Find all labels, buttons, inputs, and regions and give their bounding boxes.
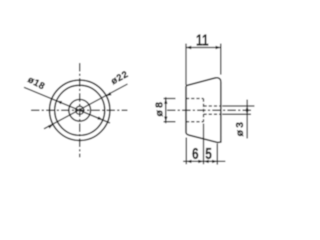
- dimension line D18: [24, 87, 110, 123]
- svg-text:5: 5: [205, 144, 212, 162]
- arrowhead dim D3 top: [246, 106, 249, 110]
- dim 6/5: right extension line: [216, 144, 218, 165]
- label D8: [154, 100, 166, 117]
- arrowhead dim D8 top: [164, 99, 167, 104]
- horizontal centerline side view: [167, 109, 252, 111]
- arrowhead dim D3 bottom: [246, 110, 249, 114]
- dim 6/5: left extension line: [185, 138, 187, 165]
- vertical centerline front view: [79, 63, 81, 157]
- dim 11: dimension line: [186, 47, 221, 49]
- dim 6/5: dimension line: [183, 160, 225, 162]
- dim D3: bottom extension line: [222, 113, 251, 115]
- arrowhead dim 11 left: [186, 46, 191, 49]
- svg-text:11: 11: [196, 31, 209, 49]
- dim 11: left extension line: [185, 44, 187, 85]
- svg-text:ø3: ø3: [234, 120, 246, 137]
- label D22: [109, 69, 130, 87]
- dimension line D22: [44, 84, 128, 129]
- horizontal centerline front view: [31, 109, 128, 111]
- dim 6/5: middle extension line: [203, 124, 205, 165]
- hidden line D8 hole end face: [203, 99, 205, 122]
- hidden line D3 hole top: [204, 105, 221, 107]
- dim D8: dimension line: [165, 97, 167, 123]
- arrowhead D22 lower-left: [48, 123, 54, 128]
- dim D3: dimension line: [246, 100, 248, 139]
- hidden line D3 hole bottom: [204, 113, 221, 115]
- label 11: [196, 31, 209, 49]
- arrowhead D22 upper-right: [105, 92, 111, 97]
- arrowhead dim D8 bottom: [164, 117, 167, 122]
- circle D18: [55, 85, 105, 135]
- part outline side view: [186, 78, 221, 143]
- dim D3: top extension line: [222, 105, 254, 107]
- dim D8: top extension line: [164, 98, 176, 100]
- arrowhead dim 6 right: [198, 160, 203, 163]
- dim D8: bottom extension line: [164, 121, 176, 123]
- label D18: [26, 74, 47, 92]
- hidden line D8 hole bottom: [186, 121, 204, 123]
- dim 11: right extension line: [220, 44, 222, 75]
- arrowhead dim 5 right: [212, 160, 217, 163]
- circle D8 counterbore: [69, 99, 91, 121]
- arrowhead D18 lower-right: [97, 116, 103, 121]
- circle D22 outer: [49, 80, 109, 140]
- svg-text:6: 6: [192, 144, 199, 162]
- hidden line D8 hole top: [186, 98, 204, 100]
- label 5: [205, 144, 212, 162]
- label 6: [192, 144, 199, 162]
- svg-text:ø8: ø8: [154, 100, 166, 117]
- label D3: [234, 120, 246, 137]
- arrowhead D18 upper-left: [56, 99, 62, 104]
- circle D3 hole: [76, 106, 84, 114]
- arrowhead dim 5 left: [204, 160, 209, 163]
- arrowhead dim 11 right: [216, 46, 221, 49]
- arrowhead dim 6 left: [186, 160, 191, 163]
